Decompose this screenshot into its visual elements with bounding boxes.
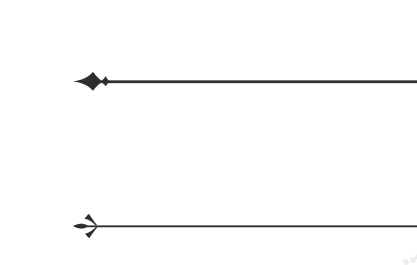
divider 2 horizontal spear leaf ornament bbox=[73, 224, 89, 229]
divider 2 upper curled frond leaf bbox=[84, 214, 97, 225]
faint cropped content smudge bottom-right bbox=[403, 255, 417, 265]
divider 1 small four-point diamond ornament bbox=[100, 76, 110, 86]
divider 1 rule line bbox=[100, 80, 417, 83]
divider 2 lower curled frond leaf bbox=[85, 227, 97, 238]
divider 1 large four-point star ornament with long left spike bbox=[73, 72, 102, 91]
divider 2 rule line bbox=[86, 225, 417, 227]
